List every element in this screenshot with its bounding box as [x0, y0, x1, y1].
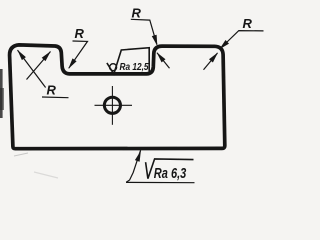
svg-text:R: R — [75, 26, 85, 41]
svg-text:R: R — [47, 83, 57, 98]
svg-text:Ra 12,5: Ra 12,5 — [120, 62, 149, 73]
svg-text:R: R — [132, 6, 142, 21]
svg-text:Ra 6,3: Ra 6,3 — [154, 165, 187, 182]
svg-text:R: R — [243, 16, 253, 31]
